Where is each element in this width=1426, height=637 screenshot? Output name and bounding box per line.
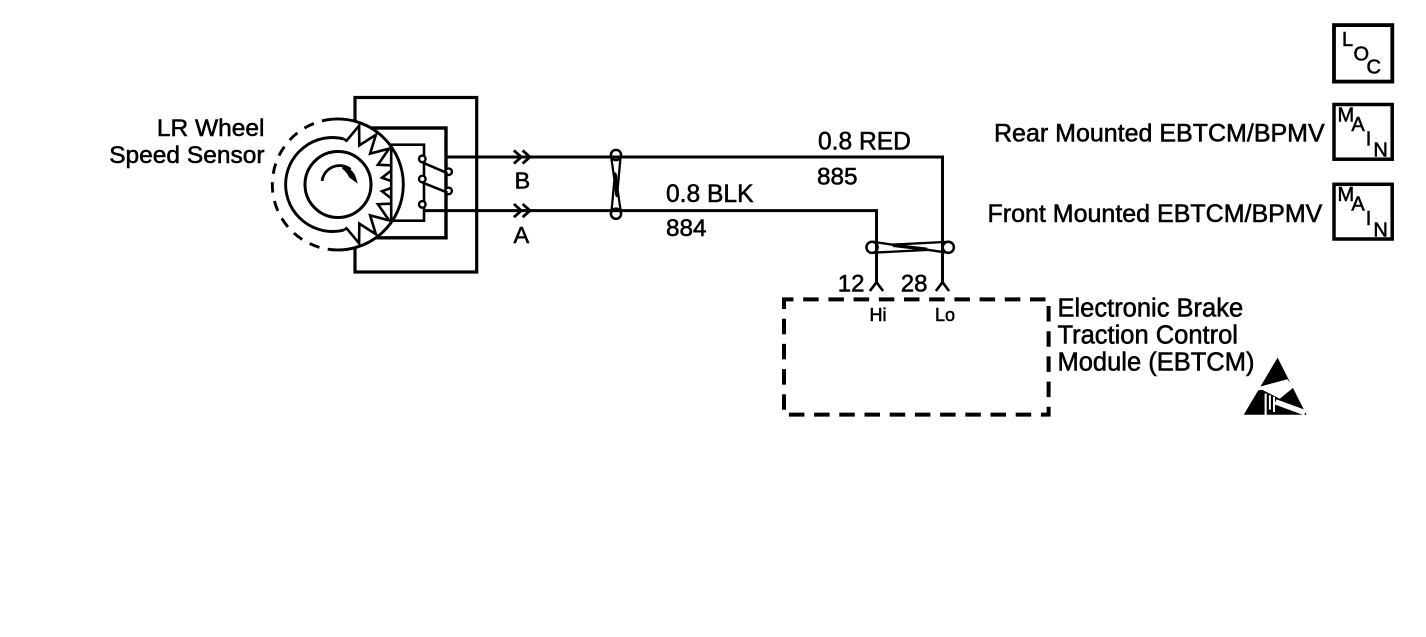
inline connector chevrons wire A: [514, 204, 530, 217]
svg-text:N: N: [1373, 219, 1387, 241]
svg-text:N: N: [1373, 140, 1387, 162]
svg-text:A: A: [514, 222, 530, 248]
rotor inner circle: [305, 152, 371, 218]
svg-text:12: 12: [838, 270, 865, 297]
LOC hyperlink box: [1334, 25, 1392, 82]
coil winding diagonals: [422, 162, 447, 192]
MAIN letters 2: [1338, 184, 1388, 241]
wire B (0.8 RED 885): [446, 157, 943, 282]
svg-text:I: I: [1366, 128, 1372, 150]
svg-text:Hi: Hi: [870, 305, 887, 325]
pin 12 terminal: [870, 282, 883, 291]
svg-text:28: 28: [901, 270, 928, 297]
svg-text:Front Mounted EBTCM/BPMV: Front Mounted EBTCM/BPMV: [988, 200, 1323, 228]
sensor outer housing box: [355, 98, 477, 273]
coil left loop bumps: [419, 156, 426, 163]
toothed ring zigzag: [344, 126, 401, 244]
MAIN hyperlink box 1: [1334, 105, 1392, 160]
pole piece box (white over zigzag): [391, 145, 424, 221]
sensor inner housing box: [371, 128, 447, 238]
svg-text:A: A: [1351, 114, 1365, 136]
MAIN hyperlink box 2: [1334, 184, 1392, 239]
svg-text:Speed Sensor: Speed Sensor: [109, 142, 264, 169]
tone wheel solid arc: [330, 119, 403, 250]
svg-text:Lo: Lo: [935, 305, 955, 325]
EBTCM dashed module box: [784, 299, 1049, 414]
wire A (0.8 BLK 884): [423, 211, 876, 282]
tone wheel white disc: [273, 119, 404, 250]
MAIN letters 1: [1338, 104, 1388, 161]
svg-text:B: B: [515, 168, 531, 194]
stator middle circle arc: [286, 138, 344, 232]
tone wheel dashed arc: [272, 119, 332, 249]
svg-text:Traction Control: Traction Control: [1058, 321, 1238, 349]
twisted pair symbol (vertical): [611, 150, 621, 219]
svg-text:Module (EBTCM): Module (EBTCM): [1058, 348, 1255, 376]
coil right loop bumps: [445, 168, 452, 175]
svg-text:I: I: [1366, 208, 1372, 230]
pin 28 terminal: [936, 282, 949, 291]
svg-text:0.8 BLK: 0.8 BLK: [666, 181, 754, 208]
svg-text:884: 884: [666, 215, 707, 242]
twisted pair symbol (horizontal): [866, 242, 954, 253]
rotation arrow head: [342, 165, 358, 183]
inline connector chevrons wire B: [514, 150, 530, 163]
svg-text:A: A: [1351, 194, 1365, 216]
svg-text:LR Wheel: LR Wheel: [157, 115, 265, 142]
svg-text:Electronic Brake: Electronic Brake: [1058, 294, 1244, 322]
svg-text:Rear Mounted EBTCM/BPMV: Rear Mounted EBTCM/BPMV: [994, 120, 1325, 148]
rotation arrow arc: [322, 166, 350, 181]
svg-text:C: C: [1367, 57, 1381, 79]
svg-text:885: 885: [817, 163, 858, 190]
svg-text:L: L: [1342, 29, 1353, 51]
ESD sensitive device symbol: [1244, 358, 1307, 416]
svg-text:0.8 RED: 0.8 RED: [818, 129, 911, 156]
